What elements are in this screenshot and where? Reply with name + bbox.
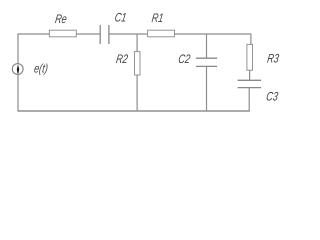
wire Re to C1 <box>76 33 100 35</box>
svg-text:Re: Re <box>54 13 68 27</box>
resistor Re <box>49 30 76 37</box>
svg-text:C3: C3 <box>265 90 279 104</box>
svg-text:e(t): e(t) <box>33 62 49 76</box>
wire C3 to bottom rail <box>248 88 250 111</box>
wire top-right corner down to R3 <box>250 34 252 45</box>
wire R3 to C3 <box>249 70 251 80</box>
svg-text:C1: C1 <box>114 11 128 25</box>
wire top-left from source to Re <box>18 34 49 64</box>
wire node to C2 <box>206 34 208 58</box>
wire C2 to bottom rail <box>206 66 208 111</box>
wire R1 to top-right corner with node at C2 branch <box>175 33 251 35</box>
wire R2 to bottom rail <box>136 75 138 111</box>
capacitor C2 <box>196 58 217 66</box>
resistor R3 <box>247 44 253 70</box>
wire C1 to R1 with node at R2 branch <box>109 33 148 35</box>
svg-text:R1: R1 <box>151 12 165 26</box>
wire source bottom to bottom rail <box>17 74 19 111</box>
resistor R2 <box>135 52 141 75</box>
capacitor C1 <box>100 25 109 44</box>
svg-text:R2: R2 <box>115 53 129 67</box>
wire node to R2 <box>136 34 138 52</box>
svg-text:C2: C2 <box>177 53 191 67</box>
source arrow <box>17 64 19 73</box>
bottom rail wire <box>18 110 250 112</box>
svg-text:R3: R3 <box>266 52 280 66</box>
source e(t) circle <box>12 64 23 75</box>
capacitor C3 <box>238 80 262 87</box>
resistor R1 <box>148 30 175 37</box>
